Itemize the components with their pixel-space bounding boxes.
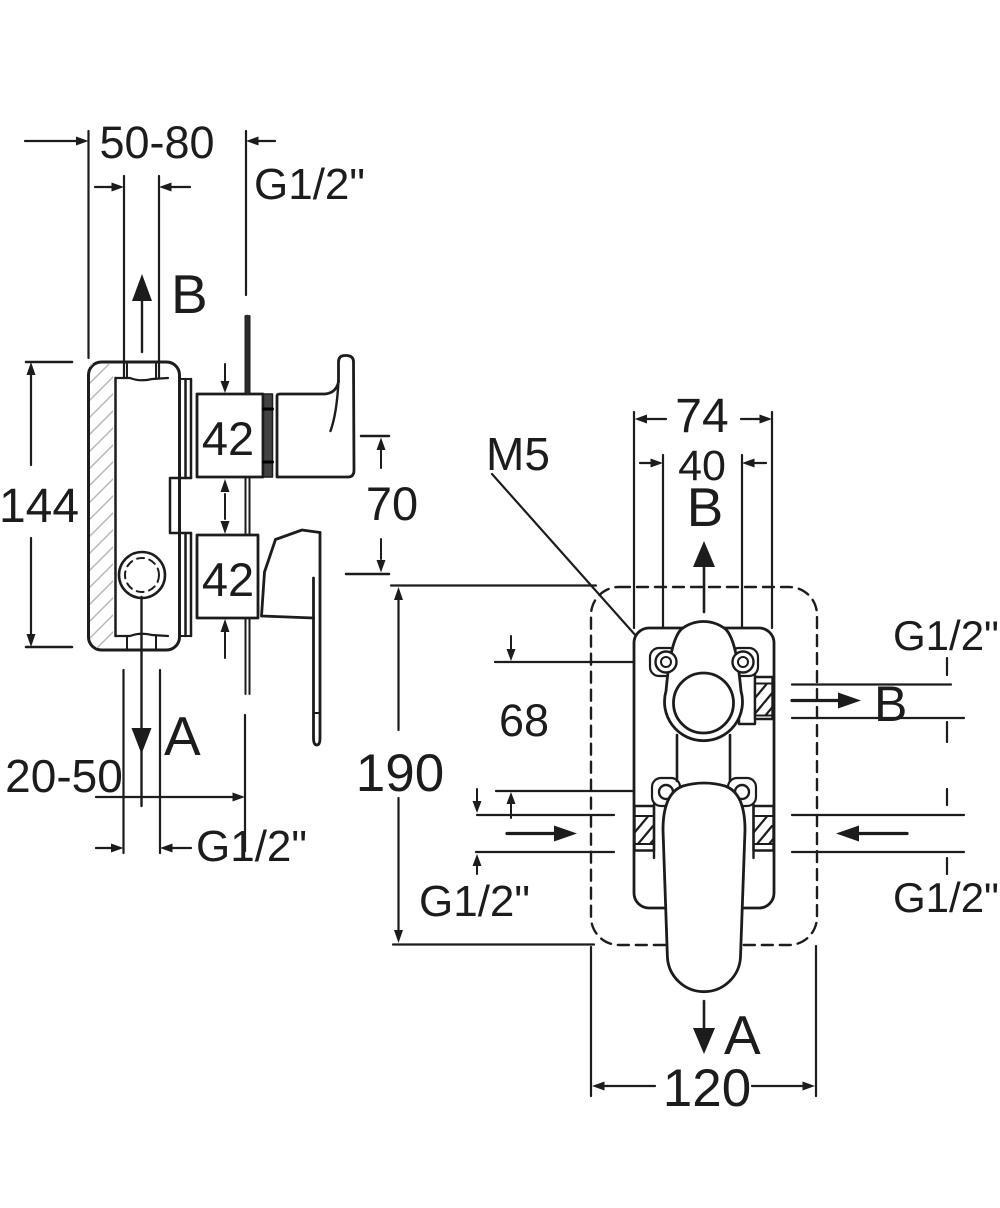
42 arrow above upper block — [224, 364, 226, 384]
lower left nut hatch — [630, 814, 660, 856]
svg-text:42: 42 — [202, 553, 254, 606]
mounting plate (front view) — [634, 628, 774, 908]
upper cartridge block — [197, 394, 263, 477]
pipe centerline (middle segment) — [246, 478, 250, 534]
right outlet bore bottom line — [792, 717, 964, 719]
dashed installation box — [591, 587, 817, 945]
svg-text:42: 42 — [202, 412, 254, 465]
lower right port nut — [754, 806, 774, 851]
upper right port block — [739, 674, 755, 724]
svg-text:120: 120 — [663, 1059, 751, 1118]
G1/2 top extension line — [245, 131, 247, 295]
svg-text:50-80: 50-80 — [99, 117, 214, 168]
svg-text:B: B — [687, 476, 724, 538]
bottom-left screw pad — [652, 778, 680, 806]
pipe centerline extension — [244, 715, 246, 851]
G1/2 top right tick — [946, 658, 948, 675]
dim 120 extension lines — [590, 947, 592, 1096]
neck lines between knob and handle — [676, 735, 679, 781]
arrow A down (side view) — [140, 597, 142, 806]
wall plate (escutcheon) — [89, 362, 180, 650]
svg-text:74: 74 — [675, 390, 728, 443]
flow arrow left inlet — [507, 832, 557, 835]
dim 120 line with arrows — [592, 1082, 605, 1091]
bottom extension lines — [122, 670, 124, 853]
74 extension lines — [633, 412, 635, 628]
trim sleeve top profile — [116, 378, 169, 380]
dimension 144 bottom tick — [26, 646, 72, 649]
pipe centerline (upper segment) — [246, 316, 250, 393]
inner dim arrows at y 187 — [95, 186, 112, 188]
diverter knob (side view) — [277, 356, 354, 478]
svg-text:B: B — [171, 263, 208, 325]
G1/2 pipe stub top — [245, 317, 250, 392]
bottom G1/2 dim arrows — [96, 847, 111, 849]
lower left port nut — [635, 806, 655, 851]
dim 50-80 dimension line right arrow — [257, 140, 275, 142]
left port ticks — [476, 789, 478, 804]
svg-text:B: B — [874, 676, 907, 732]
arrow B up (side view) — [132, 274, 152, 301]
upper right port nut — [755, 677, 773, 719]
diverter knob (front view) — [665, 622, 743, 741]
svg-text:A: A — [724, 1004, 761, 1066]
lower right port block line — [752, 804, 754, 858]
42 arrow below lower block — [224, 632, 226, 658]
left port bore lines — [477, 814, 614, 816]
arrow A down (front view) — [703, 1001, 706, 1031]
screw boss circle (side view) — [119, 552, 165, 598]
mounting bracket bar — [184, 379, 187, 478]
svg-text:G1/2": G1/2" — [254, 160, 365, 209]
dark seam between cartridge and knob — [264, 394, 273, 477]
svg-text:G1/2": G1/2" — [893, 612, 999, 659]
handle lever (side view) — [314, 533, 321, 746]
M5 leader line — [492, 474, 653, 655]
svg-text:70: 70 — [366, 477, 418, 530]
bottom-right screw — [735, 785, 749, 799]
svg-text:190: 190 — [356, 744, 444, 803]
dimension 144 line with arrows — [30, 368, 32, 642]
svg-text:68: 68 — [499, 695, 549, 746]
dimension 70 top tick — [361, 435, 389, 438]
left line to bottom screw — [496, 790, 648, 792]
dim 190 line with arrows — [397, 595, 399, 730]
upper right nut hatch — [750, 680, 780, 722]
lower cartridge block — [197, 535, 258, 618]
svg-text:M5: M5 — [486, 428, 550, 480]
68 top arrow — [510, 636, 512, 651]
svg-text:144: 144 — [0, 480, 79, 533]
42 arrows between blocks — [224, 494, 226, 519]
left line to top screw — [495, 661, 652, 663]
top-left screw — [656, 652, 677, 673]
knob bore circle — [674, 673, 734, 733]
lever tick — [314, 712, 321, 714]
tick below right outlet — [946, 722, 948, 742]
top-right screw — [733, 652, 754, 673]
svg-text:G1/2": G1/2" — [419, 877, 530, 926]
flow arrow right inlet — [836, 826, 859, 842]
flow arrow B right — [792, 699, 840, 702]
dim 190 top tick — [391, 584, 596, 586]
svg-text:A: A — [164, 705, 201, 767]
bottom-left screw — [659, 785, 673, 799]
dim 190 bottom tick — [393, 943, 594, 945]
dim 50-80 left extension line — [87, 131, 89, 358]
dim 74 — [640, 418, 666, 420]
handle base (side view) — [262, 530, 321, 618]
pipe centerline (lower segment) — [246, 617, 250, 694]
dim 50-80 dimension line left arrow — [25, 140, 77, 142]
svg-text:G1/2": G1/2" — [893, 874, 999, 921]
screw boss inner dashed circle — [125, 558, 159, 592]
tick below right inlet — [946, 858, 948, 874]
dimension 70 arrows — [380, 449, 382, 468]
svg-text:20-50: 20-50 — [5, 750, 123, 802]
bottom-right screw pad — [728, 778, 756, 806]
top-right screw pad — [730, 648, 758, 676]
right inlet bore bottom line — [792, 851, 964, 853]
right outlet bore top line — [792, 683, 951, 685]
inner extension lines pair — [123, 176, 125, 377]
dim line to pipe centerline — [96, 796, 234, 798]
68 bottom arrow — [510, 803, 512, 818]
wall plate hatching — [84, 335, 121, 661]
tick above right inlet — [946, 789, 948, 805]
arrow B up (front view) — [693, 541, 715, 567]
lower left port block line — [653, 804, 655, 858]
top-left screw pad — [650, 648, 678, 676]
dim 40 — [640, 462, 651, 464]
handle (front view) — [663, 783, 745, 992]
bracket notch between cartridges — [170, 478, 191, 533]
lower right nut hatch — [749, 814, 779, 856]
dimension 70 bottom tick — [346, 573, 389, 576]
40 extension lines — [662, 455, 664, 650]
body front face line — [114, 378, 117, 636]
dimension 144 top tick — [26, 361, 72, 364]
svg-text:G1/2": G1/2" — [196, 822, 307, 871]
knob inner curve — [331, 380, 339, 431]
right inlet bore top line — [792, 814, 964, 816]
trim sleeve bottom profile — [116, 634, 169, 636]
